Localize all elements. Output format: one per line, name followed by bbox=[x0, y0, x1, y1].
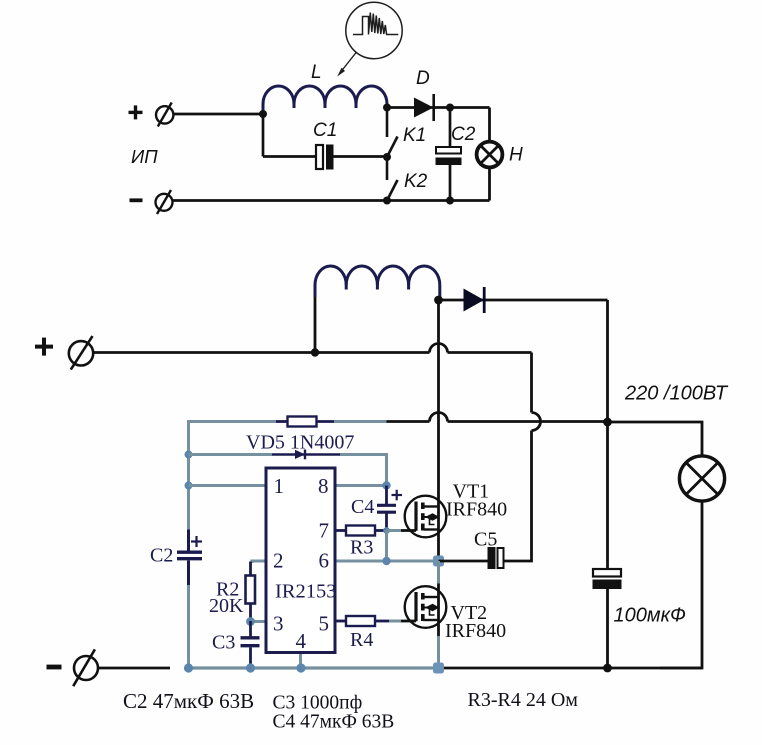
svg-text:C1: C1 bbox=[313, 120, 337, 141]
VD5 row wire bbox=[189, 453, 273, 456]
svg-text:7: 7 bbox=[319, 519, 330, 543]
wire C1 right bbox=[334, 155, 388, 158]
svg-text:R3-R4 24 Ом: R3-R4 24 Ом bbox=[468, 689, 579, 711]
svg-text:1: 1 bbox=[274, 474, 285, 498]
node coil right bbox=[383, 104, 391, 112]
wire + rail bbox=[94, 351, 532, 354]
pin1 row wire bbox=[189, 484, 267, 487]
label + (top) bbox=[129, 105, 143, 119]
vertical x531 from + rail to C5, hopping gate row bbox=[504, 353, 532, 562]
wire gray then black to the right bbox=[334, 420, 387, 423]
svg-text:C3 1000пф: C3 1000пф bbox=[273, 693, 363, 714]
capacitor C3 bbox=[241, 638, 260, 646]
svg-text:6: 6 bbox=[319, 549, 330, 573]
resistor (top, unnamed) bbox=[276, 417, 334, 427]
ground bus black bbox=[439, 667, 703, 670]
wire C1 left bbox=[263, 155, 316, 158]
svg-text:C2: C2 bbox=[150, 545, 173, 567]
svg-text:C4 47мкФ 63В: C4 47мкФ 63В bbox=[273, 712, 395, 733]
svg-text:IR2153: IR2153 bbox=[275, 581, 337, 603]
resistor R3 bbox=[335, 526, 387, 536]
terminal − (bottom) bbox=[73, 649, 98, 686]
hop of x531 over gate row bbox=[532, 413, 541, 431]
wire VT2 source to bus (gray) bbox=[437, 636, 440, 668]
svg-text:C3: C3 bbox=[212, 632, 235, 654]
capacitor C2 (electrolytic) bbox=[177, 552, 202, 559]
lamp bottom wire bbox=[660, 501, 702, 668]
svg-text:C5: C5 bbox=[474, 529, 497, 551]
switch K1 bbox=[387, 108, 398, 158]
node diode/C2 bbox=[446, 104, 454, 112]
svg-text:K1: K1 bbox=[403, 125, 426, 146]
svg-text:C2 47мкФ 63В: C2 47мкФ 63В bbox=[123, 689, 254, 713]
svg-text:R4: R4 bbox=[350, 629, 373, 651]
wire diode row (bottom) bbox=[439, 299, 608, 302]
pin6 row wire bbox=[335, 560, 439, 563]
node K2 bottom bbox=[383, 197, 391, 205]
node coil-right / drain rail top bbox=[434, 296, 443, 305]
svg-text:H: H bbox=[509, 145, 523, 166]
wire gate VT1 bbox=[387, 529, 402, 532]
capacitor C4 bbox=[377, 486, 396, 531]
label − (top) bbox=[130, 198, 143, 202]
left rail navy segment at C2 bbox=[187, 530, 190, 586]
node half-bridge midpoint bbox=[433, 556, 444, 567]
svg-text:L: L bbox=[311, 62, 322, 83]
lamp H branch bbox=[477, 108, 503, 201]
node at coil left bbox=[259, 110, 267, 118]
terminal + (top) bbox=[156, 103, 173, 127]
gate row rail: gray part left bbox=[189, 420, 277, 423]
wire gate VT2 bbox=[389, 620, 401, 623]
wire to lamp bbox=[608, 422, 703, 456]
wire midpoint to C5 bbox=[439, 560, 488, 563]
node C2 bottom bbox=[446, 197, 454, 205]
node pin3/R2/C3 bbox=[246, 617, 255, 626]
hop of + rail over drain rail bbox=[430, 344, 448, 353]
node bus C3 bbox=[246, 663, 255, 672]
transistor VT2 bbox=[405, 586, 447, 628]
svg-text:5: 5 bbox=[319, 612, 330, 636]
node bus filter cap bbox=[603, 664, 612, 673]
svg-text:20K: 20K bbox=[209, 595, 244, 617]
pin4 stub bbox=[299, 653, 302, 669]
pin2 wire to R2 bbox=[252, 561, 266, 563]
node gate VT1 bbox=[383, 527, 390, 534]
svg-text:3: 3 bbox=[273, 612, 284, 636]
resistor R2 bbox=[246, 576, 256, 604]
pin8 row wire bbox=[335, 484, 387, 487]
terminal − (top) bbox=[156, 190, 173, 214]
wire C3 to bus bbox=[249, 647, 252, 668]
svg-text:IRF840: IRF840 bbox=[445, 620, 506, 642]
switch K2 bbox=[387, 157, 398, 201]
oscillogram waveform bbox=[353, 13, 398, 35]
node bus left corner bbox=[184, 663, 193, 672]
node coil-left bbox=[311, 348, 319, 356]
lamp (bottom) bbox=[679, 456, 724, 501]
svg-text:C2: C2 bbox=[451, 124, 476, 145]
left gray rail lower bbox=[187, 585, 190, 668]
label − (bottom) bbox=[47, 665, 62, 670]
svg-text:220 /100ВТ: 220 /100ВТ bbox=[624, 383, 729, 405]
pointer arrow from bubble to coil L bbox=[337, 52, 356, 77]
oscillogram bubble bbox=[346, 2, 402, 58]
capacitor C2 (top) bbox=[436, 108, 462, 201]
svg-text:VD5 1N4007: VD5 1N4007 bbox=[246, 432, 354, 454]
diode (bottom) bbox=[464, 287, 485, 313]
bootstrap rail down to pin6 row bbox=[385, 531, 388, 562]
plus of C2 bbox=[191, 536, 202, 547]
wire to C3 bbox=[249, 621, 252, 637]
node pin6/bootstrap bbox=[382, 557, 390, 565]
svg-text:K2: K2 bbox=[404, 171, 428, 192]
node bus VT2 source bbox=[433, 663, 444, 674]
label + (bottom) bbox=[35, 338, 53, 356]
svg-text:4: 4 bbox=[296, 629, 307, 653]
diode VD5 bbox=[295, 450, 305, 460]
drain rail (vertical through VT1/VT2) bbox=[437, 300, 440, 561]
wire right rail down bbox=[606, 300, 609, 422]
wire down to C1 branch bbox=[262, 114, 265, 157]
svg-text:C4: C4 bbox=[351, 496, 374, 518]
ground bus gray bbox=[189, 666, 439, 669]
svg-text:IRF840: IRF840 bbox=[446, 499, 507, 521]
node pin1 row bbox=[185, 482, 193, 490]
svg-text:100мкФ: 100мкФ bbox=[614, 605, 687, 627]
filter capacitor 100uF bbox=[593, 422, 622, 668]
node K1/K2/C1 bbox=[383, 153, 391, 161]
wire + terminal to coil bbox=[174, 113, 264, 116]
node bus pin4 bbox=[296, 663, 305, 672]
svg-text:8: 8 bbox=[318, 474, 329, 498]
plus of C4 bbox=[392, 490, 403, 501]
node right rail bbox=[603, 418, 612, 427]
wire through VT2 bbox=[437, 584, 440, 637]
inductor (bottom coil) bbox=[315, 266, 440, 353]
capacitor C5 bbox=[488, 547, 504, 569]
svg-text:ИП: ИП bbox=[131, 146, 158, 167]
node bootstrap top bbox=[382, 481, 390, 489]
hop over drain rail bbox=[430, 413, 448, 422]
svg-text:D: D bbox=[416, 68, 430, 89]
transistor VT1 bbox=[405, 496, 447, 538]
wire midpoint down to VT2 (gray) bbox=[437, 561, 440, 584]
terminal + (bottom) bbox=[69, 336, 93, 370]
IC U1 IR2153 bbox=[266, 468, 335, 653]
bottom wire (top circuit) bbox=[172, 199, 490, 202]
diode D bbox=[414, 94, 434, 121]
svg-text:R3: R3 bbox=[350, 537, 373, 559]
inductor L bbox=[263, 86, 387, 115]
wire diode row bbox=[387, 106, 490, 109]
resistor R4 bbox=[335, 616, 389, 626]
node VD5 row bbox=[185, 451, 193, 459]
wire − terminal bbox=[98, 667, 170, 670]
capacitor C1 bbox=[316, 145, 334, 170]
wire R2 bottom to pin3 bbox=[249, 604, 252, 622]
left gray rail bbox=[187, 420, 190, 530]
svg-text:2: 2 bbox=[273, 549, 284, 573]
